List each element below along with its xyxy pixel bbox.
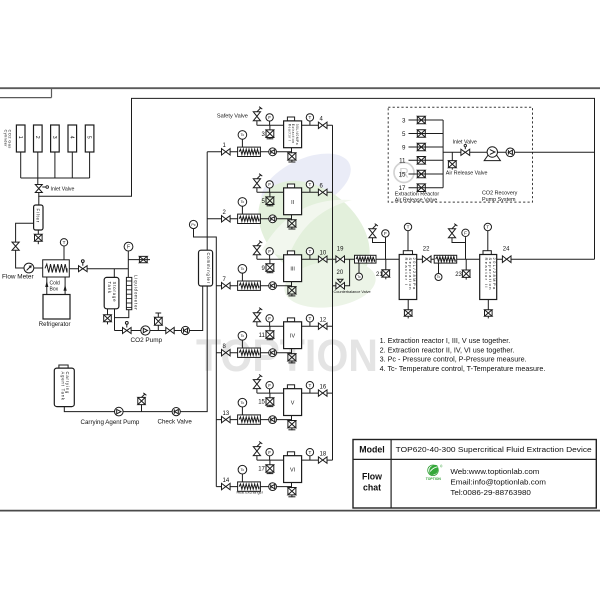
- vent valve storage: [128, 256, 150, 262]
- filter F1: [34, 196, 43, 230]
- liquidometer: [126, 275, 138, 311]
- inlet valve: [35, 185, 74, 193]
- logo TOPTION: [426, 465, 443, 482]
- heat exchanger row II: [238, 214, 261, 223]
- svg-text:Tc: Tc: [241, 468, 245, 472]
- svg-text:15: 15: [258, 400, 265, 406]
- heat exchanger row I: [238, 147, 261, 156]
- notes text: [380, 336, 546, 373]
- svg-text:chat: chat: [363, 483, 381, 493]
- title table: [353, 440, 596, 509]
- svg-text:TOP620-40-300 Supercritical Fl: TOP620-40-300 Supercritical Fluid Extrac…: [396, 445, 592, 454]
- instrument F row I: [266, 114, 273, 126]
- reactor drain valve row IV: [288, 349, 296, 364]
- valve 1: [222, 143, 231, 155]
- svg-text:Flow: Flow: [362, 472, 382, 482]
- wire right line row IV: [302, 325, 333, 327]
- svg-text:16: 16: [320, 385, 327, 391]
- separation reactor II drain valve: [485, 300, 493, 319]
- reactor V: [284, 385, 302, 416]
- wire cooler outlet: [69, 268, 128, 270]
- separation reactor II: [480, 251, 497, 300]
- wire right line row III: [302, 258, 333, 260]
- instrument T row V: [306, 382, 313, 394]
- valve V-left: [12, 242, 19, 250]
- svg-text:Extraction Reactor: Extraction Reactor: [395, 191, 440, 197]
- svg-text:20: 20: [337, 270, 344, 276]
- carrying agent tank: [54, 365, 74, 407]
- wire reactor outlet collector: [332, 125, 334, 460]
- valve 19: [336, 247, 345, 263]
- svg-text:Inlet Valve: Inlet Valve: [453, 140, 477, 146]
- relief valve carrying agent line: [138, 393, 147, 412]
- svg-text:21: 21: [376, 272, 383, 278]
- svg-text:Air Release Valve: Air Release Valve: [446, 171, 488, 177]
- air release valve 17: [399, 184, 443, 192]
- svg-text:F: F: [268, 115, 271, 120]
- svg-text:F: F: [268, 182, 271, 187]
- svg-text:Tel:0086-29-88763980: Tel:0086-29-88763980: [450, 488, 530, 497]
- wire right line row VI: [302, 459, 333, 461]
- heat exchanger row IV: [238, 348, 261, 357]
- safety valve row IV: [253, 308, 262, 327]
- svg-text:T: T: [63, 240, 66, 245]
- svg-text:9: 9: [402, 144, 406, 151]
- wire flow meter to cooler: [34, 267, 43, 269]
- instrument Pc: [189, 220, 197, 228]
- reactor VI: [284, 452, 302, 483]
- air release valve recovery: [448, 152, 456, 169]
- pump CO2 recovery: [484, 147, 500, 161]
- label Extraction Reactor Air Release Valve: [395, 191, 440, 203]
- CO2 gas cylinder 1: [16, 125, 25, 152]
- valve CO2 pump suction: [123, 328, 132, 334]
- valve 16: [318, 385, 327, 397]
- svg-text:Flow Meter: Flow Meter: [2, 274, 34, 281]
- reactor drain valve row I: [288, 148, 296, 163]
- svg-text:Tc: Tc: [241, 267, 245, 271]
- wire CO2 pump line: [115, 286, 203, 331]
- check valve carrying agent: [172, 408, 180, 416]
- label Cold Box: [50, 281, 61, 293]
- wire right line row I: [302, 124, 333, 126]
- vent valve 5: [262, 192, 274, 206]
- instrument F row VI: [266, 449, 273, 461]
- label CO2 Gas Cylinder: [3, 130, 12, 149]
- svg-text:3: 3: [402, 117, 406, 124]
- svg-text:II: II: [291, 200, 294, 206]
- cold box arrows: [45, 277, 66, 295]
- air release valve 15: [399, 170, 443, 178]
- vent valve 11: [259, 326, 274, 340]
- svg-text:Email:info@toptionlab.com: Email:info@toptionlab.com: [450, 478, 546, 487]
- svg-text:Web:www.toptionlab.com: Web:www.toptionlab.com: [450, 467, 539, 476]
- svg-text:18: 18: [320, 452, 327, 458]
- wire left line row II: [257, 191, 284, 193]
- svg-text:Pc: Pc: [191, 223, 195, 227]
- svg-text:5: 5: [402, 131, 406, 138]
- svg-text:F: F: [268, 450, 271, 455]
- svg-text:3. Pc - Pressure control, P-Pr: 3. Pc - Pressure control, P-Pressure mea…: [380, 355, 527, 364]
- storage tank: [104, 277, 119, 308]
- wire feed line row IV: [216, 352, 291, 354]
- svg-text:Reactor II: Reactor II: [484, 258, 489, 289]
- instrument T row II: [306, 181, 313, 193]
- wire left line row VI: [257, 459, 284, 461]
- valve 4: [318, 117, 327, 129]
- svg-text:Box: Box: [50, 287, 59, 293]
- wire reactor feed header A: [206, 152, 208, 250]
- svg-text:T: T: [308, 249, 311, 254]
- svg-text:12: 12: [320, 318, 327, 324]
- check valve row VI: [269, 483, 277, 491]
- svg-text:2: 2: [34, 136, 40, 139]
- valve 23: [455, 259, 470, 279]
- svg-text:4. Tc- Temperature control, T-: 4. Tc- Temperature control, T-Temperatur…: [380, 364, 546, 373]
- valve 13: [222, 411, 231, 423]
- svg-text:Tc: Tc: [241, 133, 245, 137]
- valve 8: [222, 344, 231, 356]
- svg-text:Air Release Valve: Air Release Valve: [395, 198, 437, 204]
- svg-text:Model: Model: [359, 444, 384, 454]
- svg-text:2. Extraction reactor II, IV,: 2. Extraction reactor II, IV, VI use tog…: [380, 345, 515, 354]
- vent valve 3: [262, 125, 274, 139]
- vent valve 17: [258, 460, 274, 474]
- wire Pc to reactor feed header B: [194, 229, 217, 487]
- inlet valve recovery: [453, 140, 477, 156]
- CO2 gas cylinder 3: [51, 125, 60, 152]
- wire left line row III: [257, 258, 284, 260]
- pump CO2 Pump: [141, 326, 150, 335]
- instrument F row IV: [266, 315, 273, 327]
- wire feed line row III: [216, 285, 291, 287]
- svg-text:T: T: [308, 450, 311, 455]
- label CO2 Recovery Pump System: [482, 191, 518, 203]
- svg-text:Reactor I: Reactor I: [287, 124, 291, 142]
- CO2 gas cylinder 5: [85, 125, 94, 152]
- reactor IV: [284, 318, 302, 349]
- svg-text:Tc: Tc: [357, 275, 361, 279]
- svg-text:F: F: [268, 249, 271, 254]
- valve 12: [318, 318, 327, 330]
- valve 21: [376, 259, 390, 279]
- flow meter FM: [24, 263, 34, 273]
- air release valve 5: [402, 130, 443, 138]
- svg-text:Tc: Tc: [437, 275, 441, 279]
- valve 22: [422, 247, 431, 263]
- instrument F storage: [124, 242, 133, 277]
- reactor drain valve row V: [288, 416, 296, 431]
- valve cooler outlet: [79, 266, 88, 272]
- CO2 gas cylinder 2: [34, 125, 43, 152]
- svg-text:F: F: [127, 244, 130, 250]
- svg-text:14: 14: [223, 478, 230, 484]
- svg-text:Inlet Valve: Inlet Valve: [51, 187, 75, 193]
- svg-text:T: T: [308, 383, 311, 388]
- wire feed line row II: [207, 218, 291, 220]
- valve 24: [502, 247, 511, 263]
- wire right line row II: [302, 191, 333, 193]
- svg-text:T: T: [308, 316, 311, 321]
- heat exchanger row V: [238, 415, 261, 424]
- wire CO2 recovery return pipe: [39, 98, 595, 259]
- heat exchanger row III: [238, 281, 261, 290]
- svg-text:3: 3: [51, 136, 57, 139]
- wire recovery collector: [442, 120, 444, 188]
- check valve row III: [269, 282, 277, 290]
- svg-text:Reactor I: Reactor I: [404, 258, 409, 287]
- valve CO2 pump discharge: [166, 327, 174, 333]
- valve 14: [222, 478, 231, 490]
- svg-text:Counterbalance Valve: Counterbalance Valve: [334, 290, 371, 294]
- reactor II: [284, 184, 302, 215]
- svg-text:23: 23: [455, 272, 462, 278]
- wire left line row IV: [257, 325, 284, 327]
- valve 2: [222, 210, 231, 222]
- svg-text:Carrying Agent Pump: Carrying Agent Pump: [81, 419, 140, 426]
- svg-text:Tc: Tc: [241, 401, 245, 405]
- counterbalance valve 20: [333, 259, 350, 289]
- svg-text:Agent Tank: Agent Tank: [60, 372, 65, 401]
- valve 6: [318, 184, 327, 196]
- instrument Tc row V: [238, 398, 247, 414]
- safety valve separation I: [369, 224, 386, 243]
- instrument T cooler: [60, 239, 67, 260]
- instrument F row V: [266, 382, 273, 394]
- safety valve row V: [253, 375, 262, 394]
- valve 18: [318, 452, 327, 464]
- wire filter to flow meter: [16, 223, 34, 268]
- svg-text:24: 24: [503, 247, 510, 253]
- svg-text:15: 15: [399, 171, 406, 178]
- check valve row I: [269, 148, 277, 156]
- svg-text:F: F: [384, 231, 387, 236]
- svg-text:Tc: Tc: [241, 200, 245, 204]
- wire carrying agent line: [64, 286, 207, 412]
- svg-text:1: 1: [17, 136, 23, 139]
- safety valve row I: [217, 107, 262, 126]
- heat exchanger row VI: [238, 482, 261, 491]
- instrument Tc row IV: [238, 332, 247, 349]
- svg-text:F: F: [464, 231, 467, 236]
- filter drain valve: [35, 230, 43, 244]
- CO2 gas cylinder 4: [68, 125, 77, 152]
- instrument T row VI: [306, 449, 313, 461]
- vent valve 9: [262, 259, 274, 273]
- reactor drain valve row II: [288, 215, 296, 230]
- valve 10: [318, 251, 327, 263]
- check valve row V: [269, 416, 277, 424]
- reactor I: [284, 117, 302, 148]
- svg-text:T: T: [308, 115, 311, 120]
- separation reactor I: [399, 251, 417, 300]
- valve 7: [222, 277, 231, 289]
- safety valve separation II: [448, 224, 465, 243]
- relief valve CO2 pump line: [155, 313, 163, 331]
- svg-text:Safety Valve: Safety Valve: [217, 113, 248, 119]
- svg-text:Refrigerator: Refrigerator: [39, 322, 71, 328]
- wire feed line row VI: [216, 486, 291, 488]
- instrument F separation I: [382, 230, 389, 260]
- svg-text:T: T: [407, 225, 410, 230]
- instrument Tc row III: [238, 265, 247, 282]
- instrument T row I: [306, 114, 313, 126]
- air release valve 9: [402, 143, 443, 151]
- reactor III: [284, 251, 302, 282]
- svg-text:F: F: [268, 383, 271, 388]
- wire cylinder manifold: [21, 152, 90, 184]
- separation reactor I drain valve: [404, 300, 412, 319]
- instrument T row III: [306, 248, 313, 260]
- svg-text:F: F: [268, 316, 271, 321]
- wire left line row I: [257, 124, 284, 126]
- svg-text:Filter: Filter: [36, 209, 41, 224]
- svg-text:13: 13: [223, 411, 230, 417]
- pump Carrying Agent Pump: [115, 407, 124, 416]
- instrument T separation I: [404, 223, 411, 250]
- cooler heat exchanger: [43, 260, 70, 277]
- svg-text:11: 11: [259, 333, 266, 339]
- wire storage tank inlet: [113, 269, 115, 278]
- svg-text:4: 4: [68, 136, 74, 139]
- svg-text:5: 5: [86, 136, 92, 139]
- instrument Tc row I: [238, 131, 247, 148]
- safety valve row II: [253, 174, 262, 193]
- svg-text:VI: VI: [290, 468, 295, 474]
- svg-text:III: III: [290, 267, 295, 273]
- wire main separation line: [333, 258, 595, 260]
- air release valve 11: [399, 157, 443, 165]
- commingler: [199, 250, 213, 286]
- heat exchanger separation I: [355, 255, 377, 263]
- svg-text:T: T: [308, 182, 311, 187]
- svg-text:IV: IV: [290, 334, 295, 340]
- reactor drain valve row VI: [288, 483, 296, 498]
- check valve CO2 pump: [181, 326, 189, 334]
- svg-text:Commingler: Commingler: [206, 253, 211, 285]
- wire recovery pump line: [443, 151, 594, 153]
- svg-text:11: 11: [399, 158, 406, 165]
- safety valve row VI: [253, 442, 262, 461]
- wire left line row V: [257, 392, 284, 394]
- instrument F separation II: [462, 229, 469, 259]
- refrigerator: [39, 295, 71, 328]
- instrument Tc row II: [238, 198, 247, 215]
- svg-text:Pump System: Pump System: [482, 197, 516, 203]
- instrument Tc row VI: [238, 465, 247, 481]
- reactor drain valve row III: [288, 282, 296, 297]
- svg-text:V: V: [291, 401, 295, 407]
- svg-text:Check Valve: Check Valve: [158, 419, 193, 426]
- svg-text:1. Extraction reactor I, III,: 1. Extraction reactor I, III, V use toge…: [380, 336, 511, 345]
- instrument F row III: [266, 248, 273, 260]
- CO2 recovery system dashed box: [388, 107, 532, 202]
- svg-text:17: 17: [258, 467, 265, 473]
- check valve row IV: [269, 349, 277, 357]
- wire feed line row I: [207, 151, 291, 153]
- svg-text:CO2 Recovery: CO2 Recovery: [482, 191, 518, 197]
- instrument Tc separation II: [435, 263, 442, 280]
- storage tank drain valve: [104, 309, 112, 325]
- check valve row II: [269, 215, 277, 223]
- label Flow chat: [362, 472, 382, 493]
- wire liquidometer drain: [115, 310, 129, 318]
- svg-text:Liquidometer: Liquidometer: [134, 275, 139, 311]
- svg-text:T: T: [486, 225, 489, 230]
- instrument T row IV: [306, 315, 313, 327]
- svg-text:10: 10: [320, 251, 327, 257]
- svg-text:Tc: Tc: [241, 334, 245, 338]
- svg-text:Cylinder: Cylinder: [3, 130, 8, 148]
- wire feed line row V: [216, 419, 291, 421]
- air release valve 3: [402, 116, 443, 124]
- svg-text:Heat Exchanger: Heat Exchanger: [237, 491, 264, 495]
- check valve recovery: [506, 148, 515, 157]
- instrument F row II: [266, 181, 273, 193]
- wire right line row V: [302, 392, 333, 394]
- svg-text:CO2 Pump: CO2 Pump: [131, 337, 163, 344]
- svg-text:22: 22: [423, 247, 430, 253]
- wire storage tank outlet: [114, 309, 116, 331]
- svg-text:19: 19: [337, 247, 344, 253]
- vent valve 15: [258, 393, 274, 407]
- safety valve row III: [253, 241, 262, 260]
- svg-text:TOPTION: TOPTION: [426, 477, 442, 481]
- heat exchanger separation II: [434, 255, 457, 263]
- instrument Tc separation I: [356, 263, 363, 280]
- svg-text:Tank: Tank: [107, 282, 112, 294]
- instrument T separation II: [484, 223, 491, 250]
